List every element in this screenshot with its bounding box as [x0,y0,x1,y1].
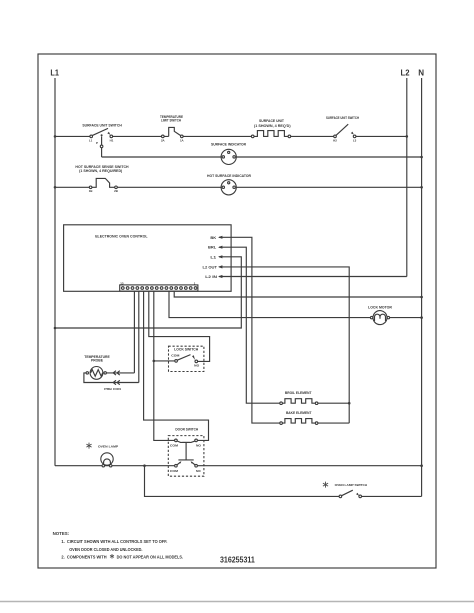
svg-text:COM: COM [170,469,179,473]
svg-text:316255311: 316255311 [220,555,255,564]
svg-text:L2 OUT: L2 OUT [203,265,218,269]
svg-text:1B: 1B [89,189,93,193]
svg-text:NO: NO [196,444,202,448]
svg-text:ELECTRONIC OVEN CONTROL: ELECTRONIC OVEN CONTROL [95,234,148,239]
svg-text:2A: 2A [161,139,166,143]
svg-text:OVEN LAMP SWITCH: OVEN LAMP SWITCH [335,483,368,487]
svg-text:LOCK MOTOR: LOCK MOTOR [368,306,392,310]
svg-text:HOT SURFACE INDICATOR: HOT SURFACE INDICATOR [207,174,251,178]
svg-text:(1 SHOWN, 4 REQ'D): (1 SHOWN, 4 REQ'D) [254,124,291,128]
svg-text:PROBE: PROBE [91,359,104,363]
svg-text:LOCK SWITCH: LOCK SWITCH [174,347,198,351]
svg-text:BROIL ELEMENT: BROIL ELEMENT [285,391,312,395]
svg-text:H1: H1 [110,139,114,143]
svg-text:BK: BK [210,236,216,240]
svg-text:COM: COM [170,444,179,448]
svg-text:L1: L1 [50,68,59,77]
svg-text:SURFACE UNIT: SURFACE UNIT [259,119,285,123]
svg-text:13: 13 [120,281,124,285]
svg-text:1. CIRCUIT SHOWN WITH ALL CON: 1. CIRCUIT SHOWN WITH ALL CONTROLS SET T… [61,539,167,544]
svg-text:NC: NC [196,469,202,473]
svg-text:PRB CON: PRB CON [104,387,121,391]
svg-text:SURFACE INDICATOR: SURFACE INDICATOR [211,143,246,147]
svg-text:OVEN LAMP: OVEN LAMP [98,444,118,448]
svg-text:LIMIT SWITCH: LIMIT SWITCH [161,119,181,123]
svg-text:L1: L1 [89,139,93,143]
svg-text:2B: 2B [114,189,118,193]
svg-text:P: P [96,141,98,145]
svg-text:(1 SHOWN, 4 REQUIRED): (1 SHOWN, 4 REQUIRED) [79,169,123,173]
svg-text:COM: COM [171,353,180,357]
svg-text:NOTES:: NOTES: [53,531,70,536]
svg-text:L1: L1 [210,255,216,259]
svg-text:SURFACE UNIT SWITCH: SURFACE UNIT SWITCH [82,124,122,128]
svg-text:L2: L2 [401,68,411,77]
svg-text:SURFACE UNIT SWITCH: SURFACE UNIT SWITCH [326,116,359,120]
svg-text:OVEN DOOR CLOSED AND UNLOCKED.: OVEN DOOR CLOSED AND UNLOCKED. [69,547,142,552]
svg-text:1A: 1A [180,139,185,143]
svg-text:DO NOT APPEAR ON ALL MODELS.: DO NOT APPEAR ON ALL MODELS. [117,555,184,560]
svg-text:L2 IN: L2 IN [205,275,217,279]
svg-text:BRL: BRL [208,246,217,250]
svg-text:H2: H2 [333,139,337,143]
svg-text:2. COMPONENTS WITH: 2. COMPONENTS WITH [61,555,106,560]
svg-text:N: N [418,68,424,77]
svg-text:DOOR SWITCH: DOOR SWITCH [175,427,198,431]
svg-text:NO: NO [194,364,200,368]
svg-text:BAKE ELEMENT: BAKE ELEMENT [286,411,312,415]
svg-text:L3: L3 [353,139,357,143]
